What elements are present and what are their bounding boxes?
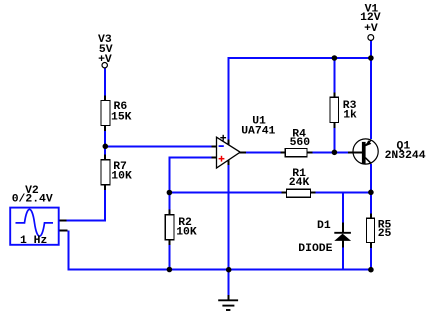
wire ground drop [228, 270, 230, 297]
wire diode bottom to bus [342, 247, 344, 271]
transistor Q1 2N3244 [348, 139, 426, 164]
resistor R4 560 [281, 128, 313, 156]
svg-text:2N3244: 2N3244 [385, 150, 426, 162]
node R2 ground bus junction [167, 267, 173, 273]
svg-text:560: 560 [290, 137, 311, 149]
wire R6 to R7 through node [104, 125, 106, 161]
node R3 top rail junction [332, 55, 338, 61]
svg-text:10K: 10K [111, 171, 132, 183]
wire R7 bottom down [104, 184, 106, 221]
wire op-amp output to R4 [245, 151, 286, 153]
node emitter R1 R5 junction [368, 190, 374, 196]
svg-text:+V: +V [364, 23, 378, 35]
wire node to R5 top [370, 193, 372, 220]
wire node to R1 left [168, 192, 287, 194]
svg-text:+V: +V [98, 54, 112, 66]
svg-text:UA741: UA741 [241, 126, 275, 138]
wire V2 plus terminal horizontal [65, 220, 106, 222]
source V2 1 Hz [10, 185, 67, 247]
resistor R1 24K [282, 168, 316, 197]
wire V1 terminal down [370, 41, 372, 60]
wire V2 minus terminal down [67, 231, 69, 271]
wire V1 rail down to Q1 collector [370, 58, 372, 139]
wire diode tap down [342, 192, 344, 225]
svg-text:0/2.4V: 0/2.4V [12, 193, 53, 205]
node V1 rail junction [368, 55, 374, 61]
diode D1 [298, 220, 351, 255]
wire R5 bottom to bus [370, 242, 372, 271]
ground [218, 295, 238, 310]
resistor R6 15K [101, 96, 132, 132]
wire R1 right to emitter node [310, 192, 372, 194]
wire R4 to R3 node [308, 151, 335, 153]
node R5 ground bus junction [368, 267, 374, 273]
op-amp U1 UA741 [211, 116, 275, 168]
svg-text:10K: 10K [176, 226, 197, 238]
resistor R2 10K [165, 210, 197, 246]
svg-text:24K: 24K [289, 177, 310, 189]
resistor R7 10K [101, 155, 132, 191]
node R6-R7 inverting input junction [103, 144, 109, 150]
resistor R3 1k [330, 93, 357, 129]
wire R3 bottom to node [333, 122, 335, 153]
wire V3 terminal to R6 [104, 68, 106, 101]
wire non-inverting input down to node [168, 157, 170, 212]
wire Q1 emitter down to node [370, 164, 372, 194]
power terminal V1 [360, 4, 381, 41]
svg-text:25: 25 [378, 228, 392, 240]
node R3 R4 base junction [332, 150, 338, 156]
wire ground bus [67, 269, 372, 271]
power terminal V3 [98, 34, 113, 68]
svg-text:1k: 1k [343, 109, 357, 121]
wire inverting input horizontal [104, 145, 213, 147]
node ground bus center junction [226, 267, 232, 273]
wire op-amp V+ vertical [228, 57, 230, 141]
wire R2 bottom to ground bus [168, 239, 170, 270]
wire non-inverting input horizontal [169, 157, 213, 159]
wire node to Q1 base [334, 151, 349, 153]
svg-text:D1: D1 [317, 220, 331, 232]
wire top rail V1 to op-amp V+ corner [228, 57, 372, 59]
svg-text:DIODE: DIODE [298, 243, 332, 255]
svg-text:1 Hz: 1 Hz [20, 235, 47, 247]
wire op-amp V- down to ground bus [228, 164, 230, 271]
wire R3 top tap [333, 58, 335, 98]
node non-inverting R1 R2 junction [167, 190, 173, 196]
resistor R5 25 [366, 214, 391, 249]
svg-text:15K: 15K [111, 111, 132, 123]
